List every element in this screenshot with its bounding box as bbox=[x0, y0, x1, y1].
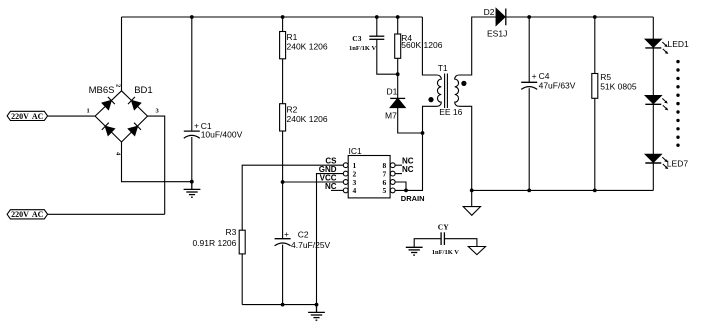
svg-text:240K 1206: 240K 1206 bbox=[287, 114, 328, 124]
LED chain top wire bbox=[652, 17, 654, 39]
svg-text:R1: R1 bbox=[287, 32, 298, 42]
port 220V AC line input bbox=[7, 111, 48, 120]
wire bridge top to rail bbox=[121, 17, 123, 91]
node dot R1 top bbox=[281, 15, 285, 19]
capacitor C3 bottom lead to snubber node bbox=[377, 39, 398, 74]
svg-text:MB6S: MB6S bbox=[89, 85, 115, 96]
wire D2 cathode to LED chain bbox=[506, 16, 654, 18]
wire VCC pin to C2 node bbox=[283, 181, 344, 183]
svg-text:C3: C3 bbox=[352, 34, 361, 43]
capacitor C1 bottom lead bbox=[191, 137, 193, 182]
resistor R2 bottom lead to VCC node bbox=[282, 131, 284, 182]
bridge diode top-right bbox=[128, 97, 141, 110]
resistor R1 body bbox=[280, 32, 286, 59]
port 220V AC neutral input bbox=[7, 210, 48, 219]
svg-text:51K 0805: 51K 0805 bbox=[600, 82, 637, 92]
resistor R2 body bbox=[280, 104, 286, 131]
wire LED2 to LED7 bbox=[652, 104, 654, 154]
transformer T1 primary top wire bbox=[422, 17, 437, 75]
node dot drain pins bbox=[404, 189, 408, 193]
capacitor C4 top lead bbox=[528, 17, 530, 82]
LED7 bbox=[645, 154, 661, 162]
ground earth CY left bbox=[406, 247, 423, 255]
svg-text:BD1: BD1 bbox=[134, 85, 152, 96]
ground primary under C1 bbox=[184, 182, 201, 198]
transformer T1 core bbox=[444, 74, 446, 109]
transformer T1 primary bottom wire bbox=[423, 106, 438, 133]
bridge diode bottom-right bbox=[128, 123, 141, 136]
svg-text:D2: D2 bbox=[484, 7, 495, 17]
svg-text:R5: R5 bbox=[600, 72, 611, 82]
svg-text:DRAIN: DRAIN bbox=[401, 194, 425, 203]
wire NC pin7 stub bbox=[395, 173, 402, 175]
wire pin6 to drain node bbox=[395, 182, 406, 190]
diode D2 triangle bbox=[496, 9, 505, 26]
resistor R3 bottom lead bbox=[241, 254, 243, 305]
LED ellipsis dots bbox=[676, 60, 679, 63]
wire bridge pin4 to C1 bottom / ground bbox=[122, 142, 192, 182]
capacitor CY plates bbox=[440, 232, 442, 245]
svg-text:ES1J: ES1J bbox=[487, 28, 507, 38]
node dot R5 bottom bbox=[593, 189, 597, 193]
svg-text:1nF/1K V: 1nF/1K V bbox=[432, 249, 459, 256]
svg-text:4.7uF/25V: 4.7uF/25V bbox=[291, 240, 331, 250]
svg-text:NC: NC bbox=[402, 165, 414, 174]
wire secondary gnd rail bbox=[472, 189, 654, 191]
wire GND pin to rail bbox=[317, 174, 344, 305]
LED2 arrows bbox=[662, 98, 668, 110]
node dot C2 rail bbox=[281, 303, 285, 307]
node dot C4 top bbox=[527, 15, 531, 19]
svg-text:1: 1 bbox=[87, 107, 90, 114]
node dot snubber bbox=[396, 72, 400, 76]
transformer T1 secondary bottom wire bbox=[459, 106, 472, 190]
wire NC pin4 stub bbox=[331, 189, 343, 191]
wire top rail DC+ bbox=[122, 16, 423, 18]
capacitor C1 top lead bbox=[191, 17, 193, 131]
transformer phase dot primary bbox=[428, 97, 433, 102]
resistor R1 leads bbox=[282, 17, 284, 32]
diode D1 bottom lead to drain bbox=[398, 108, 423, 133]
capacitor C1 plates bbox=[184, 130, 200, 132]
node dot C4 bottom bbox=[527, 189, 531, 193]
svg-text:M7: M7 bbox=[385, 110, 397, 120]
svg-text:4: 4 bbox=[353, 186, 357, 195]
node dot C1 ground bbox=[190, 180, 194, 184]
svg-text:LED1: LED1 bbox=[668, 39, 690, 49]
resistor R5 body bbox=[592, 74, 598, 99]
svg-text:NC: NC bbox=[325, 182, 337, 191]
svg-text:240K 1206: 240K 1206 bbox=[287, 42, 328, 52]
svg-text:5: 5 bbox=[383, 186, 387, 195]
svg-text:2: 2 bbox=[115, 84, 122, 87]
transformer T1 secondary top wire to D2 bbox=[459, 17, 496, 75]
wire pin5 drain to transformer bbox=[395, 133, 422, 190]
transformer phase dot secondary bbox=[461, 81, 466, 86]
wire CS to R3 top bbox=[242, 165, 343, 230]
svg-text:EE 16: EE 16 bbox=[439, 107, 462, 117]
bridge diode bottom-left bbox=[102, 123, 115, 136]
node dot secondary gnd bbox=[470, 189, 474, 193]
svg-text:47uF/63V: 47uF/63V bbox=[539, 80, 576, 90]
diode D1 triangle bbox=[390, 98, 405, 107]
diode D1 cathode bar bbox=[390, 97, 405, 99]
wire bridge pin3 to port2 vertical bbox=[148, 116, 165, 214]
capacitor C2 bottom lead bbox=[282, 245, 284, 305]
node dot R4 top bbox=[396, 15, 400, 19]
ground chassis secondary bbox=[463, 190, 480, 215]
IC1 pin circles right bbox=[390, 163, 395, 168]
bridge rectifier BD1 MB6S diamond bbox=[95, 91, 147, 142]
LED1 arrows bbox=[662, 42, 668, 54]
node dot C1 top bbox=[190, 15, 194, 19]
diode D1 top lead bbox=[397, 74, 399, 98]
resistor R4 body bbox=[395, 34, 401, 58]
transformer T1 primary winding bbox=[437, 75, 441, 106]
node dot C3 top bbox=[375, 15, 379, 19]
node dot VCC C2 bbox=[281, 180, 285, 184]
svg-text:IC1: IC1 bbox=[349, 146, 363, 156]
LED7 arrows bbox=[662, 157, 668, 169]
resistor R5 leads bbox=[594, 17, 596, 74]
svg-text:D1: D1 bbox=[387, 87, 398, 97]
wire LED7 to rail bbox=[652, 163, 654, 190]
IC1 pin circles left bbox=[343, 163, 348, 168]
LED2 bbox=[645, 96, 661, 104]
wire port2 to vertical bbox=[48, 213, 165, 215]
capacitor C4 plates bbox=[521, 81, 537, 83]
wire NC pin8 stub bbox=[395, 164, 402, 166]
ground primary under rail bbox=[308, 305, 325, 321]
svg-text:1nF/1K V: 1nF/1K V bbox=[349, 45, 376, 52]
ground chassis CY right bbox=[468, 247, 485, 255]
svg-text:+: + bbox=[194, 120, 199, 130]
transformer T1 secondary winding bbox=[455, 75, 459, 106]
capacitor C3 plates bbox=[369, 35, 384, 37]
LED1 bbox=[645, 39, 661, 47]
node dot R5 top bbox=[593, 15, 597, 19]
svg-text:220V AC: 220V AC bbox=[11, 210, 43, 219]
svg-text:LED7: LED7 bbox=[667, 158, 689, 168]
svg-text:CY: CY bbox=[438, 222, 449, 231]
capacitor C4 bottom lead bbox=[528, 88, 530, 190]
wire LED1 to LED2 bbox=[652, 48, 654, 96]
node dot drain transformer bbox=[421, 131, 425, 135]
svg-text:R3: R3 bbox=[226, 227, 237, 237]
svg-text:R2: R2 bbox=[287, 104, 298, 114]
bridge diode top-left bbox=[102, 97, 115, 110]
svg-text:560K 1206: 560K 1206 bbox=[401, 40, 442, 50]
resistor R4 leads bbox=[397, 17, 399, 34]
wire port1 to bridge pin1 bbox=[48, 115, 96, 117]
node dot gnd rail bbox=[315, 303, 319, 307]
capacitor C3 top lead bbox=[376, 17, 378, 36]
IC1 body bbox=[348, 156, 390, 198]
capacitor C2 top lead bbox=[282, 182, 284, 239]
svg-text:C2: C2 bbox=[298, 230, 309, 240]
svg-text:220V AC: 220V AC bbox=[11, 112, 43, 121]
capacitor CY left lead bbox=[414, 239, 441, 248]
svg-text:+: + bbox=[284, 229, 289, 239]
svg-text:0.91R 1206: 0.91R 1206 bbox=[192, 238, 236, 248]
wire primary gnd rail bbox=[242, 304, 316, 306]
diode D2 cathode bar bbox=[505, 9, 507, 26]
resistor R3 body bbox=[239, 230, 245, 254]
capacitor CY right lead bbox=[444, 239, 477, 247]
svg-text:+: + bbox=[532, 71, 537, 81]
svg-text:10uF/400V: 10uF/400V bbox=[201, 130, 243, 140]
svg-text:T1: T1 bbox=[438, 63, 448, 73]
capacitor C2 plates bbox=[275, 238, 291, 240]
